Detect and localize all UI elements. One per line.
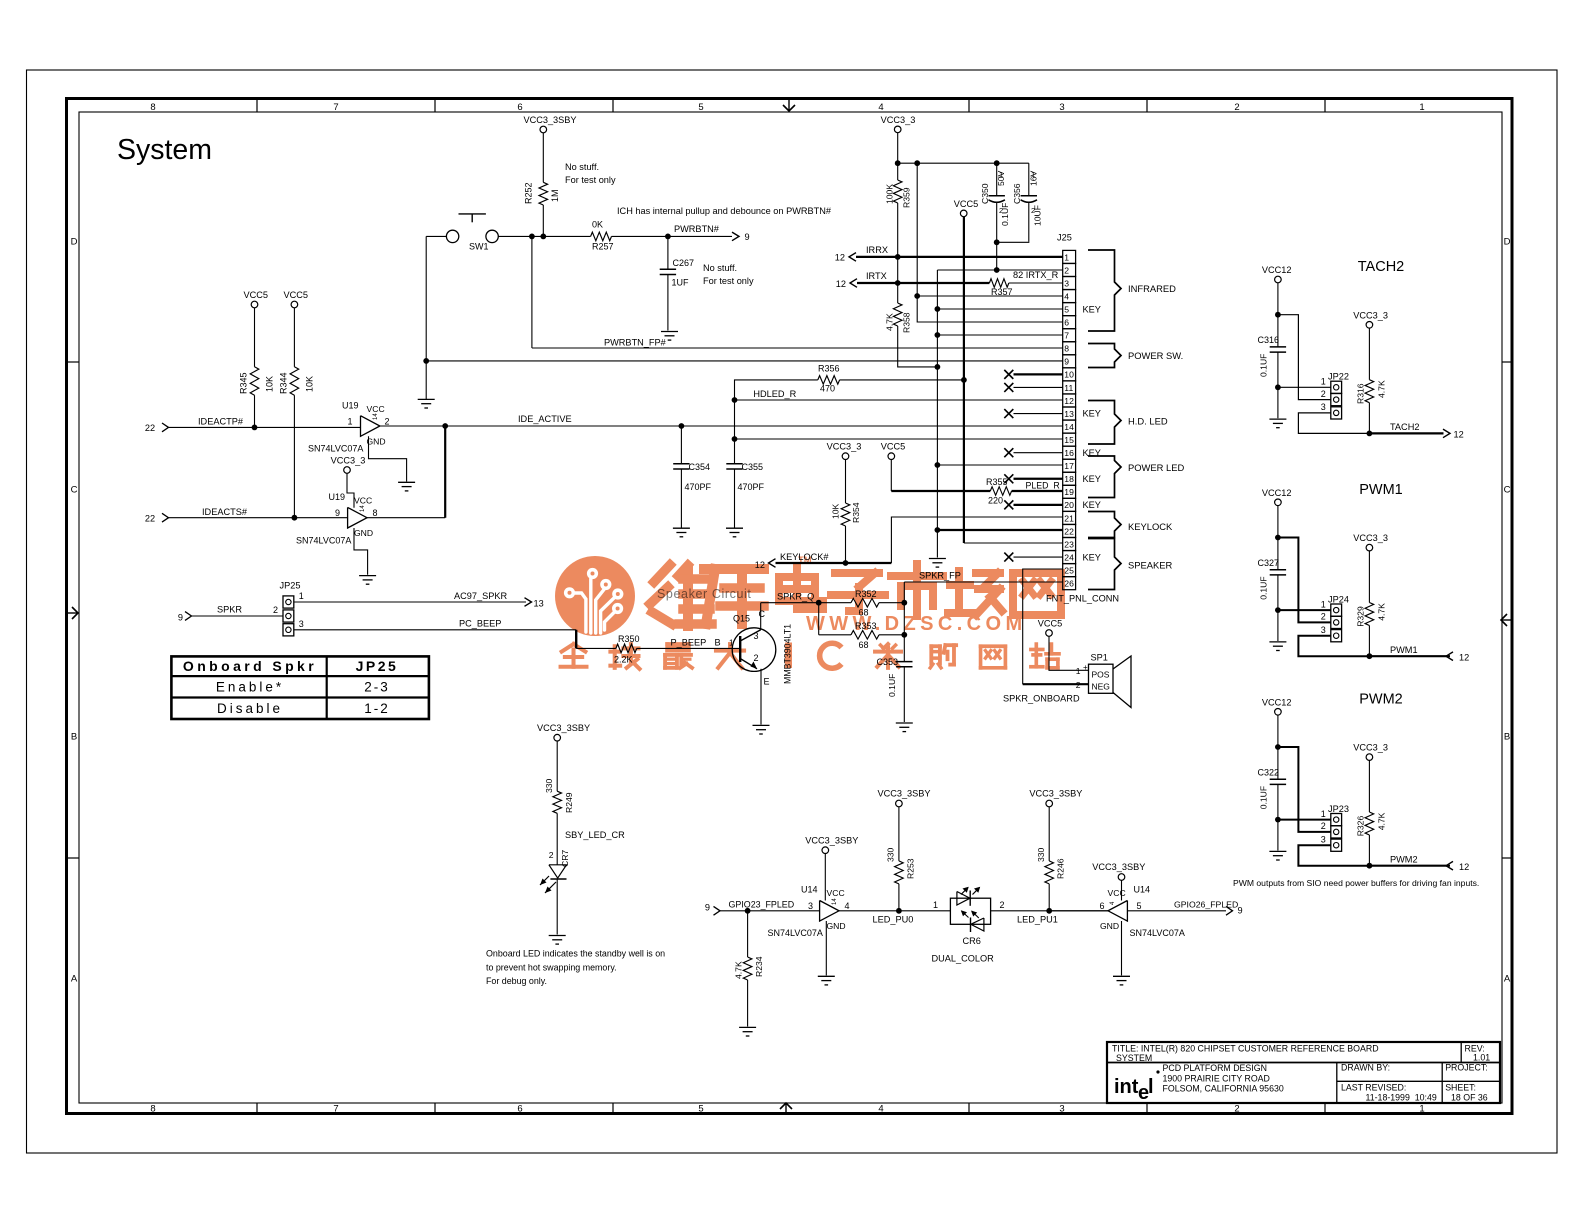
wire pin15 to J25 [735,438,1063,440]
svg-text:PWM2: PWM2 [1359,691,1403,707]
svg-text:9: 9 [1238,906,1243,916]
svg-text:1: 1 [999,170,1003,179]
svg-text:SP1: SP1 [1091,653,1108,663]
off-page arrow AC97_SPKR 13 [525,598,532,607]
svg-text:JP24: JP24 [1328,594,1349,604]
op-amp buffer U19A SN74LVC07A [361,416,380,437]
ground SW1 [418,398,435,400]
junction buffer outputs [442,423,448,429]
svg-text:PROJECT:: PROJECT: [1445,1063,1488,1073]
wire pin4 [917,295,1062,297]
svg-text:12: 12 [1064,396,1074,406]
title block frame [1107,1042,1500,1103]
svg-text:C267: C267 [673,258,695,268]
svg-text:4.7K: 4.7K [1377,603,1387,621]
wire top rail [898,162,1029,164]
svg-text:DUAL_COLOR: DUAL_COLOR [932,954,995,964]
svg-text:10: 10 [1064,370,1074,380]
svg-text:D: D [71,237,78,248]
ground U14A [818,975,835,977]
wire R257 to PWRBTN# arrow [612,235,733,237]
wire PLED_R left [891,490,990,492]
junction gnd rail pin5 [935,306,941,312]
svg-text:JP22: JP22 [1328,372,1349,382]
wire gnd rail top to pin2 [937,269,1062,271]
transistor Q15 MMBT3904LT1 [732,628,776,672]
svg-text:R344: R344 [279,372,289,394]
svg-text:No stuff.: No stuff. [565,162,599,172]
resistor R359 100K [893,180,902,203]
svg-text:VCC3_3: VCC3_3 [827,442,862,452]
svg-text:2: 2 [385,417,390,427]
junction SPKR_Q/R353 drop [816,600,822,606]
svg-text:TM: TM [798,555,812,566]
resistor R234 4.7K [747,911,749,957]
wire VCC12 down [1277,283,1279,347]
svg-text:SHEET:: SHEET: [1445,1082,1476,1092]
sheet center arrow top [788,100,790,111]
junction R353/C353 [901,632,907,638]
svg-text:16: 16 [1064,448,1074,458]
svg-text:VCC3_3: VCC3_3 [1353,533,1388,543]
svg-text:IDEACTS#: IDEACTS# [202,507,248,517]
svg-text:VCC12: VCC12 [1262,697,1292,707]
wire U19A output IDE_ACTIVE [380,425,1063,427]
svg-text:3: 3 [1059,102,1064,113]
svg-text:U14: U14 [1134,885,1151,895]
junction IRRX/R359 [895,254,901,260]
svg-text:J25: J25 [1057,233,1072,243]
no-connect X pin11 [1004,383,1013,392]
svg-text:6: 6 [517,1104,522,1115]
svg-text:B: B [71,732,77,743]
off-page arrow PWM2 12 [1446,861,1453,870]
svg-text:VCC3_3SBY: VCC3_3SBY [1029,789,1082,799]
power VCC5 (rail) [960,210,967,217]
wire C356 bottom hook [997,241,1029,244]
svg-text:C316: C316 [1257,335,1279,345]
grid tick marks [256,100,258,112]
svg-text:TACH2: TACH2 [1358,259,1404,275]
svg-text:11: 11 [1064,383,1073,393]
svg-text:10K: 10K [265,376,275,392]
svg-text:18: 18 [1064,474,1074,484]
svg-text:IRRX: IRRX [866,245,888,255]
svg-text:1: 1 [1321,377,1326,387]
wire pin9 net to J25 [426,360,1062,362]
junction IRTX/R358 [895,280,901,286]
wire VCC12 down [1277,715,1279,779]
capacitor C322 0.1UF [1270,778,1286,780]
bracket SPEAKER [1088,539,1121,590]
svg-text:C322: C322 [1257,767,1279,777]
svg-text:0K: 0K [592,220,603,230]
svg-text:KEY: KEY [1083,500,1101,510]
svg-text:11-18-1999_10:49: 11-18-1999_10:49 [1366,1093,1437,1103]
wire JP24 pin3 to rail [1298,636,1369,657]
svg-text:SPKR: SPKR [217,605,242,615]
power VCC3_3SBY (R252) [540,126,547,133]
no-connect X pin13 [1004,409,1013,418]
junction C316 bottom / pin1 [1275,384,1281,390]
svg-text:For debug only.: For debug only. [486,976,547,986]
svg-text:R355: R355 [986,477,1008,487]
capacitor C355 470PF [726,463,742,465]
svg-text:PWRBTN#: PWRBTN# [674,224,720,234]
svg-text:IDE_ACTIVE: IDE_ACTIVE [518,414,572,424]
wire R354 to KEYLOCK# [845,526,847,563]
wire P_BEEP to Q15 base [637,647,741,649]
wire VCC12 to JP22 pin2 [1278,315,1331,400]
svg-text:VCC: VCC [827,888,845,898]
svg-text:C350: C350 [980,183,990,204]
svg-text:13: 13 [1064,409,1074,419]
power VCC3_3 (R354) [842,453,849,460]
junction R252 bottom [540,234,546,240]
svg-text:10K: 10K [305,376,315,392]
power VCC12 (C322) [1275,709,1282,716]
svg-text:3: 3 [1321,625,1326,635]
svg-text:R354: R354 [851,502,861,523]
svg-text:HDLED_R: HDLED_R [753,389,796,399]
svg-text:4: 4 [878,102,883,113]
svg-text:POS: POS [1092,670,1110,680]
svg-text:GND: GND [354,528,373,538]
wire KEYLOCK# up to pin21 [891,517,1062,563]
svg-text:VCC3_3SBY: VCC3_3SBY [537,723,590,733]
junction gnd rail pin22 [935,527,941,533]
op-amp buffer U14A SN74LVC07A [820,901,839,922]
wire R345 to IDEACTP# [254,395,256,427]
svg-text:1: 1 [347,417,352,427]
svg-text:2-3: 2-3 [364,680,390,695]
wire R329 to rail [1368,626,1370,657]
switch SW1 [459,213,486,215]
svg-text:5: 5 [698,102,703,113]
wire VCC3_3 down [897,133,899,180]
svg-text:2: 2 [1031,206,1035,215]
no-connect X pin24 [1004,553,1013,562]
junction caps bottom [994,239,1000,245]
wire IRRX [856,256,1063,258]
svg-text:2: 2 [273,605,278,615]
svg-text:R357: R357 [991,287,1013,297]
svg-text:LED_PU0: LED_PU0 [873,915,914,925]
svg-text:CR7: CR7 [560,850,570,867]
svg-text:VCC5: VCC5 [1038,619,1063,629]
svg-text:470: 470 [820,384,835,394]
svg-text:PWM1: PWM1 [1390,645,1418,655]
wire R353 to drop [879,634,904,636]
svg-text:2: 2 [1064,265,1069,275]
svg-text:3: 3 [754,631,759,641]
svg-text:4.7K: 4.7K [885,313,895,331]
svg-text:to prevent hot swapping memory: to prevent hot swapping memory. [486,962,617,972]
wire SW1 ground drop vertical [425,236,427,399]
svg-text:C354: C354 [689,462,711,472]
svg-text:18 OF 36: 18 OF 36 [1451,1093,1488,1103]
junction top rail C350 [994,160,1000,166]
resistor R353 68 [851,631,879,640]
wire IDEACTP# to U19 pin1 [169,426,361,428]
ground C353 [896,722,913,724]
ground R234 [739,1026,756,1028]
junction R358/gnd rail [935,364,941,370]
power VCC3_3SBY (R249) [554,734,561,741]
svg-text:KEY: KEY [1083,409,1101,419]
svg-text:For test only: For test only [703,276,754,286]
svg-text:8: 8 [1064,344,1069,354]
svg-text:SPKR_ONBOARD: SPKR_ONBOARD [1003,694,1080,704]
wire U14A gnd [825,921,827,975]
wire VCC5 to PLED_R [890,460,892,492]
svg-text:VCC3_3: VCC3_3 [881,115,916,125]
svg-text:0.1UF: 0.1UF [1259,786,1269,809]
svg-text:2: 2 [1321,389,1326,399]
svg-text:330: 330 [1036,847,1046,862]
svg-text:14: 14 [373,413,379,420]
off-page arrow PWM1 12 [1446,652,1453,661]
svg-text:R234: R234 [754,956,764,977]
wire Q15 collector to SPKR_Q [760,603,762,630]
svg-text:9: 9 [178,613,183,623]
wire JP22 pin3 to rail [1298,413,1369,434]
svg-text:PWRBTN_FP#: PWRBTN_FP# [604,338,667,348]
svg-text:12: 12 [1459,652,1469,662]
svg-text:POWER SW.: POWER SW. [1128,350,1183,361]
svg-text:12: 12 [1454,430,1464,440]
svg-text:R358: R358 [902,312,912,333]
svg-text:9: 9 [745,232,750,242]
svg-text:SN74LVC07A: SN74LVC07A [1130,928,1185,938]
svg-text:VCC3_3SBY: VCC3_3SBY [1092,862,1145,872]
wire R246 to LED_PU1 [1048,884,1050,911]
svg-text:VCC3_3: VCC3_3 [331,456,366,466]
wire JP23 pin3 to rail [1298,845,1369,866]
svg-text:12: 12 [836,279,846,289]
svg-text:9: 9 [1064,357,1069,367]
off-page arrow TACH2 12 [1443,429,1450,438]
svg-text:Onboard Spkr: Onboard Spkr [183,658,317,674]
svg-text:22: 22 [1064,526,1074,536]
svg-text:C: C [1504,485,1511,496]
junction C354/IDE_ACTIVE [679,423,685,429]
sheet center arrow bottom [785,1103,787,1112]
junction R234 [745,908,751,914]
capacitor C327 0.1UF [1270,569,1286,571]
svg-text:KEY: KEY [1083,304,1101,314]
junction top rail x917 [914,160,920,166]
svg-text:ICH has internal pullup and de: ICH has internal pullup and debounce on … [617,206,832,216]
svg-text:+: + [1083,663,1088,672]
junction VCC12 rail [1275,312,1281,318]
svg-text:VCC3_3SBY: VCC3_3SBY [877,789,930,799]
junction R345/IDEACTP# [252,425,258,431]
power VCC3_3SBY (U14A) [822,847,829,854]
wire VCC3_3 to U19B [347,473,354,507]
power VCC3_3 (R329) [1366,544,1373,551]
resistor R329 4.7K [1368,551,1370,603]
wire U14B gnd [1121,921,1123,975]
svg-text:4: 4 [1064,291,1069,301]
svg-text:25: 25 [1064,565,1074,575]
svg-text:TACH2: TACH2 [1390,422,1419,432]
svg-text:SN74LVC07A: SN74LVC07A [308,444,363,454]
junction VCC12 rail [1275,744,1281,750]
wire Q15 emitter to ground [760,669,762,725]
svg-text:R356: R356 [818,364,840,374]
resistor R316 4.7K [1368,328,1370,380]
svg-text:14: 14 [360,505,366,512]
capacitor C316 0.1UF [1270,346,1286,348]
svg-text:0.1UF: 0.1UF [1259,354,1269,377]
svg-text:DRAWN BY:: DRAWN BY: [1341,1063,1390,1073]
svg-text:2: 2 [1321,821,1326,831]
svg-text:13: 13 [534,599,544,609]
wire VCC12 down [1277,506,1279,570]
svg-text:1: 1 [1419,1104,1424,1115]
wire R352 to SPKR_FP drop [879,602,904,604]
wire R356 right to VCC5 rail [840,379,964,381]
capacitor C350 0.1UF 50V [996,163,998,196]
junction R352/SPKR_FP drop [901,600,907,606]
wire pin17 [937,464,1062,466]
svg-text:U19: U19 [329,492,346,502]
svg-text:CR6: CR6 [963,936,981,946]
svg-text:C355: C355 [742,462,764,472]
sheet border inner [79,112,1502,1103]
svg-text:15: 15 [1064,435,1074,445]
resistor R352 68 [851,598,879,607]
wire PWRBTN_FP# to J25 pin8 [532,347,1063,349]
wire U14B input GPIO26_FPLED [1127,910,1226,912]
resistor R354 10K [845,460,847,504]
LED CR7 [549,865,567,878]
op-amp buffer U19B SN74LVC07A [348,507,367,528]
wire IDEACTS# to U19 pin9 [169,517,348,519]
svg-text:1.01: 1.01 [1473,1053,1490,1063]
svg-text:1: 1 [299,591,304,601]
svg-text:100K: 100K [885,184,895,204]
junction VCC12 rail [1275,535,1281,541]
wire GPIO23_FPLED to U14A [720,910,820,912]
svg-text:6: 6 [1064,318,1069,328]
svg-text:330: 330 [886,847,896,862]
svg-text:19: 19 [1064,487,1074,497]
wire JP25 pin3 PC_BEEP [294,629,576,631]
wire R353 drop [818,603,820,635]
svg-text:WWW.DZSC.COM: WWW.DZSC.COM [806,613,1027,635]
svg-text:SN74LVC07A: SN74LVC07A [768,928,823,938]
resistor R357 82 [989,279,1008,288]
svg-text:SBY_LED_CR: SBY_LED_CR [565,830,625,840]
svg-text:2: 2 [1234,1104,1239,1115]
svg-text:470PF: 470PF [685,482,712,492]
wire R357 to pin3 [1009,282,1063,284]
svg-text:VCC5: VCC5 [881,442,906,452]
wire C356 top hook [1028,163,1030,196]
power VCC12 (C327) [1275,499,1282,506]
power VCC5 (SP1) [1046,630,1053,637]
speaker SP1 SPKR_ONBOARD [1089,664,1114,693]
svg-text:8: 8 [150,1104,155,1115]
svg-text:21: 21 [1064,513,1074,523]
svg-text:JP25: JP25 [280,581,301,591]
svg-text:VCC: VCC [1108,888,1126,898]
svg-text:A: A [1504,974,1511,985]
svg-text:4: 4 [845,901,850,911]
wire x917 vertical [917,163,1062,322]
svg-text:E: E [764,677,770,687]
wire R356 left hook [735,380,818,400]
svg-text:R252: R252 [524,182,534,204]
wire JP25 pin1 AC97_SPKR [294,601,526,603]
wire R253 to LED_PU0 [898,884,900,911]
wire PWM1 rail right [1369,655,1450,657]
svg-text:7: 7 [1064,331,1069,341]
resistor R326 4.7K [1368,760,1370,812]
wire VCC12 to JP24 pin2 [1278,538,1331,623]
power VCC12 (C316) [1275,276,1282,283]
svg-text:2: 2 [549,850,554,860]
wire TACH2 rail right [1369,432,1443,434]
junction R329/rail [1367,653,1373,659]
resistor R246 330 [1048,807,1050,861]
wire R326 to rail [1368,835,1370,866]
wire R359 to IRRX [897,203,899,257]
op-amp buffer U14B SN74LVC07A [1108,901,1127,922]
svg-text:1: 1 [1064,252,1069,262]
svg-text:B: B [715,638,721,648]
junction KEYLOCK#/R354 [843,560,849,566]
svg-text:KEY: KEY [1083,474,1101,484]
svg-text:330: 330 [544,778,554,793]
svg-text:1UF: 1UF [672,278,690,288]
power VCC3_3 (R359) [894,126,901,133]
svg-text:H.D. LED: H.D. LED [1128,416,1168,427]
wire PWRBTN_FP# vertical [531,236,533,348]
wire VCC5 to speaker POS [1049,636,1089,670]
resistor R345 10K [254,308,256,367]
resistor R356 470 [818,376,840,385]
wire pin25 to speaker [1023,569,1063,684]
svg-text:int: int [1114,1076,1139,1098]
power VCC3_3SBY (R253) [896,800,903,807]
ground C322 [1269,850,1286,852]
svg-text:R359: R359 [902,187,912,208]
svg-text:VCC3_3: VCC3_3 [1353,310,1388,320]
svg-text:2: 2 [754,653,759,663]
ground C354 [673,527,690,529]
svg-text:Disable: Disable [217,701,283,716]
svg-text:LED_PU1: LED_PU1 [1017,915,1058,925]
svg-text:82 IRTX_R: 82 IRTX_R [1013,270,1059,280]
svg-text:5: 5 [1064,304,1069,314]
wire U14B output [1049,910,1108,912]
svg-text:VCC: VCC [354,496,372,506]
svg-text:SW1: SW1 [469,242,489,252]
svg-text:8: 8 [373,508,378,518]
svg-text:SYSTEM: SYSTEM [1116,1053,1152,1063]
svg-text:JP25: JP25 [356,658,399,674]
svg-text:AC97_SPKR: AC97_SPKR [454,591,507,601]
junction R326/rail [1367,863,1373,869]
svg-text:VCC3_3SBY: VCC3_3SBY [805,836,858,846]
wire HDLED vertical to C355 [734,400,736,464]
junction caps pin2 [994,267,1000,273]
svg-text:20: 20 [1064,500,1074,510]
svg-text:1: 1 [1419,102,1424,113]
